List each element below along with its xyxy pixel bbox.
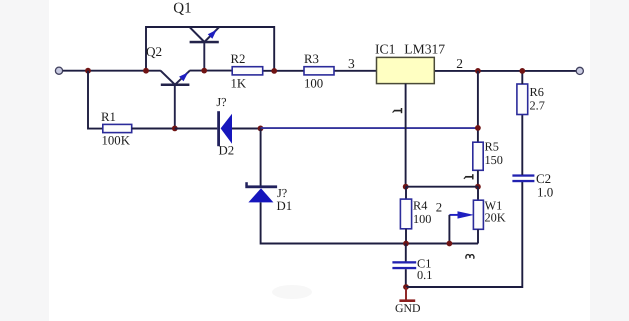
svg-text:D1: D1 <box>277 199 293 213</box>
svg-text:GND: GND <box>395 301 421 315</box>
wire: IC1 adj pin down <box>405 84 407 187</box>
node: rail junction Q1 base / R2 <box>201 68 207 74</box>
node: rail junction loop right / R2 right <box>271 68 277 74</box>
node: rail junction R5 branch <box>475 68 481 74</box>
diode D2 <box>217 111 232 146</box>
wire: IC1 pin 2 to output <box>434 70 576 72</box>
svg-text:20K: 20K <box>485 211 506 225</box>
node: Q2 base / R1 / D2 junction <box>172 125 178 131</box>
wire: R1 branch down <box>88 71 103 129</box>
wire: input rail left <box>63 70 161 72</box>
node: D2 / D1 junction <box>258 125 264 131</box>
output terminal <box>576 67 583 74</box>
svg-text:R4: R4 <box>413 198 427 212</box>
diode D1 <box>245 182 277 202</box>
svg-text:IC1: IC1 <box>375 42 395 57</box>
wire: D1 anode down and along bottom to W1 <box>261 202 478 243</box>
capacitor C2 <box>512 174 534 182</box>
svg-text:100: 100 <box>304 77 323 91</box>
capacitor C1 <box>392 261 416 269</box>
wire: W1 top lead <box>477 187 479 201</box>
svg-text:Q2: Q2 <box>146 44 162 59</box>
node: adj bus / R5 junction <box>475 125 481 131</box>
wire: wiper stub down <box>448 215 450 244</box>
svg-text:3: 3 <box>348 56 355 71</box>
svg-text:Q1: Q1 <box>173 0 191 16</box>
wire: bottom rail to C2 <box>406 181 522 287</box>
svg-text:0.1: 0.1 <box>417 268 432 282</box>
node: adj junction right <box>475 184 481 190</box>
svg-text:100K: 100K <box>102 134 131 148</box>
wire: R3 to IC1 pin 3 <box>334 70 377 72</box>
transistor Q2 <box>161 70 191 128</box>
wire: rail Q2 emitter to R2 <box>190 70 233 72</box>
op-amp IC1 LM317 regulator <box>377 57 435 83</box>
label pin 1 of W1 (rotated) <box>464 174 473 179</box>
svg-text:D2: D2 <box>219 143 235 157</box>
label pin 3 of W1 (rotated) <box>466 255 474 259</box>
svg-text:R2: R2 <box>231 52 246 66</box>
wire: D2 anode to junction <box>232 128 261 130</box>
svg-text:150: 150 <box>485 153 503 167</box>
wire: C1 bottom lead <box>405 269 407 287</box>
svg-text:R5: R5 <box>485 140 499 154</box>
wire: R4 bottom lead <box>405 229 407 244</box>
resistor R6 <box>517 84 528 115</box>
svg-text:R1: R1 <box>101 110 116 124</box>
node: rail junction R6 branch <box>519 68 525 74</box>
svg-text:LM317: LM317 <box>404 42 445 57</box>
transistor Q1 <box>190 27 219 70</box>
svg-text:2: 2 <box>436 200 442 214</box>
wire: R1 to Q2 base node <box>132 128 175 130</box>
svg-text:J?: J? <box>216 95 226 109</box>
wire: between adj junctions <box>406 186 478 188</box>
resistor R2 <box>232 67 263 75</box>
wire: long adj bus to R5 branch <box>261 127 478 129</box>
svg-text:R6: R6 <box>530 85 544 99</box>
resistor R5 <box>473 142 483 170</box>
node: ground junction <box>403 284 409 290</box>
svg-text:2.7: 2.7 <box>530 98 545 112</box>
wiper arrow of W1 <box>449 211 474 218</box>
resistor R3 <box>304 67 334 75</box>
wire: top loop over Q1 <box>146 27 274 71</box>
node: adj junction left <box>403 184 409 190</box>
wire: D1 top lead <box>260 128 262 185</box>
wire: W1 bottom lead <box>477 229 479 243</box>
wire: C2 top lead to R6 <box>521 115 523 175</box>
wire: R2 right to R3 <box>263 70 304 72</box>
wire: R5 branch from rail <box>477 71 479 142</box>
svg-text:1K: 1K <box>231 77 247 91</box>
node: rail junction R1 branch <box>85 68 91 74</box>
input terminal <box>55 67 62 74</box>
ground <box>399 287 415 302</box>
wire: C1 top lead <box>405 244 407 263</box>
label pin 1 (rotated) <box>393 108 402 113</box>
svg-text:R3: R3 <box>304 52 319 66</box>
svg-text:2: 2 <box>456 56 463 71</box>
node: wiper junction <box>447 241 453 247</box>
wire: R6 top lead <box>521 71 523 84</box>
wire: R4 top lead <box>405 187 407 199</box>
resistor R1 <box>103 124 132 132</box>
svg-text:1.0: 1.0 <box>537 185 553 200</box>
wire: R5 bottom lead <box>477 170 479 186</box>
potentiometer W1 <box>473 200 483 229</box>
resistor R4 <box>400 199 411 229</box>
svg-text:100: 100 <box>413 212 431 226</box>
wire: node to D2 cathode <box>175 128 218 130</box>
node: rail junction Q1 loop left <box>143 68 149 74</box>
node: R4 / C1 junction <box>403 241 409 247</box>
